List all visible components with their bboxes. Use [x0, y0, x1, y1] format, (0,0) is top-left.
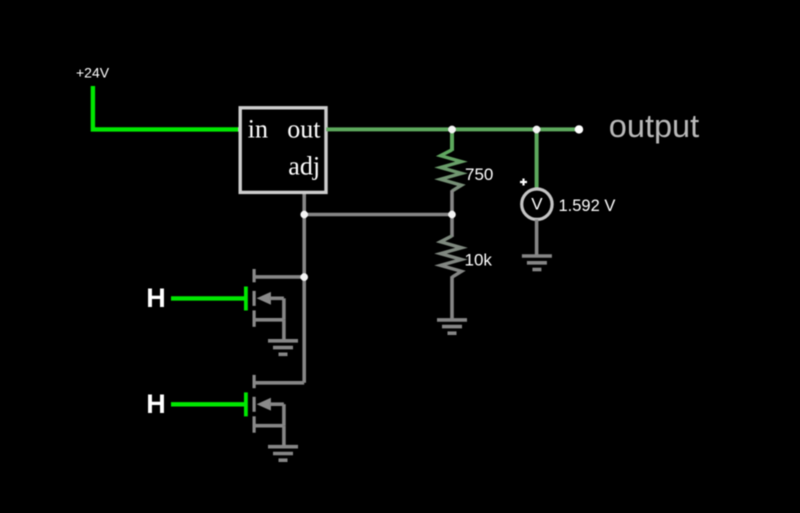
- ground G4 below Q2: [268, 447, 298, 461]
- node dot output terminal: [575, 125, 583, 133]
- svg-text:1.592 V: 1.592 V: [559, 197, 616, 215]
- wire resistor R2 bottom lead: [450, 276, 454, 318]
- wire Q1 source to ground: [282, 320, 286, 340]
- ground G1 below 10k: [437, 320, 467, 333]
- transistor Q1 channel segments: [253, 269, 256, 327]
- voltmeter M1 circle: [522, 189, 552, 219]
- resistor R1 750 zigzag: [441, 150, 462, 191]
- svg-text:output: output: [609, 108, 699, 144]
- transistor Q2 body arrow: [257, 398, 271, 411]
- transistor Q2 gate bar: [244, 392, 248, 416]
- wire adj pin down: [302, 194, 306, 215]
- node dot Q1 drain junction: [300, 273, 308, 281]
- node dot adj junction: [300, 211, 308, 219]
- transistor Q2 drain line: [254, 381, 304, 385]
- transistor Q2 channel segments: [253, 375, 256, 433]
- svg-text:out: out: [287, 114, 321, 143]
- ground G2 below voltmeter: [522, 256, 552, 270]
- voltmeter M1 plus sign: [520, 179, 527, 186]
- node dot divider junction: [448, 211, 456, 219]
- svg-text:+24V: +24V: [76, 64, 110, 80]
- svg-text:H: H: [146, 283, 166, 313]
- svg-text:750: 750: [465, 165, 493, 184]
- wire resistor R2 top lead: [450, 215, 454, 237]
- wire +24V source to regulator in: [93, 86, 239, 129]
- svg-text:V: V: [531, 194, 543, 213]
- wire H input to gate Q1: [171, 296, 245, 300]
- wire resistor R1 bottom lead: [450, 190, 454, 214]
- wire Q2 body to source: [282, 404, 286, 426]
- transistor Q1 source line: [254, 318, 284, 322]
- wire resistor R1 top lead: [450, 129, 454, 150]
- resistor R2 10k zigzag: [441, 236, 462, 277]
- transistor Q1 gate bar: [244, 287, 248, 311]
- ground G3 below Q1: [268, 341, 298, 355]
- wire Q1 body to source: [282, 298, 286, 320]
- svg-text:H: H: [146, 389, 166, 419]
- svg-text:in: in: [248, 114, 268, 143]
- regulator U1 box: [240, 108, 326, 193]
- wire adj node to divider: [304, 213, 452, 217]
- node dot out/R1: [448, 126, 456, 134]
- svg-text:10k: 10k: [465, 251, 493, 270]
- wire voltmeter bottom lead: [535, 220, 539, 255]
- wire trunk down to mosfets: [302, 215, 306, 383]
- wire out to output node: [326, 127, 579, 131]
- transistor Q1 body arrow: [257, 292, 271, 305]
- wire Q2 source to ground: [282, 426, 286, 446]
- wire H input to gate Q2: [171, 402, 245, 406]
- node dot out/voltmeter: [533, 126, 541, 134]
- transistor Q1 drain line: [254, 275, 304, 279]
- svg-text:adj: adj: [288, 152, 320, 181]
- transistor Q2 source line: [254, 424, 284, 428]
- wire voltmeter top lead: [535, 129, 539, 189]
